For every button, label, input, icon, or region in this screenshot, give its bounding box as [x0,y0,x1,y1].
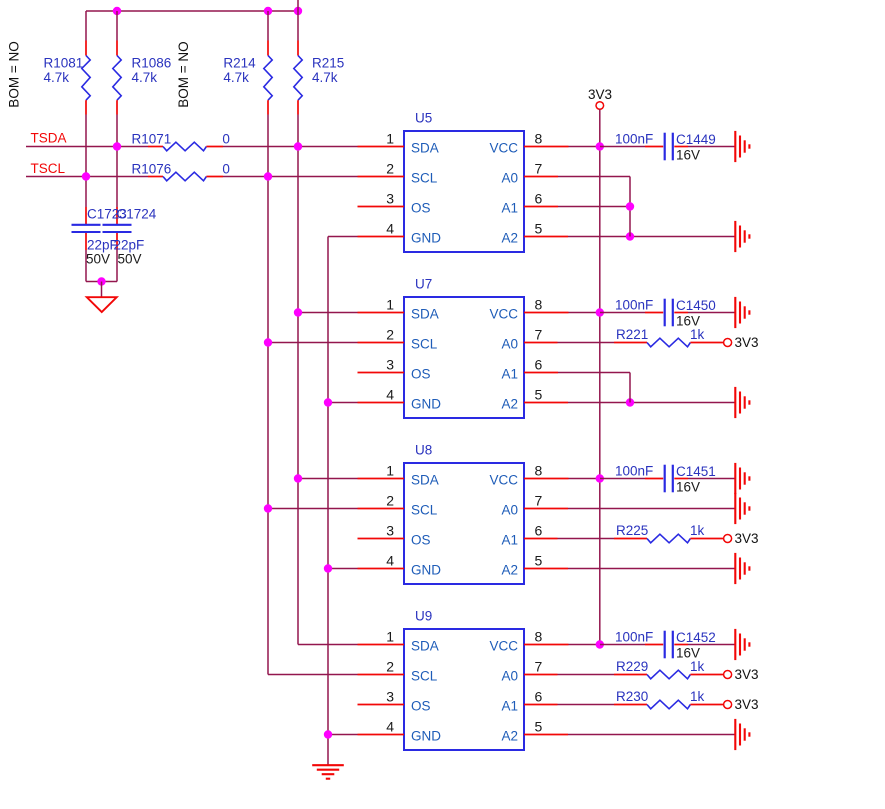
svg-text:1k: 1k [690,659,705,674]
svg-text:GND: GND [411,563,441,578]
svg-text:4.7k: 4.7k [223,70,249,85]
svg-text:1: 1 [386,462,394,478]
svg-text:SDA: SDA [411,639,439,654]
svg-text:6: 6 [535,357,543,373]
svg-text:5: 5 [535,553,543,569]
svg-text:A1: A1 [501,533,518,548]
svg-text:A0: A0 [501,337,518,352]
svg-text:16V: 16V [676,148,700,163]
svg-text:1k: 1k [690,689,705,704]
svg-text:3V3: 3V3 [735,667,759,682]
svg-text:C1450: C1450 [676,298,716,313]
svg-text:6: 6 [535,523,543,539]
svg-text:22pF: 22pF [114,237,145,252]
svg-text:2: 2 [386,160,394,176]
svg-text:3: 3 [386,356,394,372]
svg-text:3V3: 3V3 [735,531,759,546]
svg-text:OS: OS [411,699,431,714]
svg-text:100nF: 100nF [615,132,653,147]
svg-text:BOM = NO: BOM = NO [176,41,191,107]
svg-text:1: 1 [386,628,394,644]
svg-text:4.7k: 4.7k [44,70,70,85]
svg-text:5: 5 [535,719,543,735]
svg-text:OS: OS [411,201,431,216]
svg-text:R1076: R1076 [132,161,172,176]
svg-text:A0: A0 [501,503,518,518]
svg-text:VCC: VCC [489,141,518,156]
svg-text:A0: A0 [501,669,518,684]
svg-text:GND: GND [411,729,441,744]
svg-text:R1081: R1081 [44,56,84,71]
svg-text:SDA: SDA [411,473,439,488]
svg-text:U7: U7 [415,276,432,291]
svg-text:4.7k: 4.7k [312,70,338,85]
svg-text:7: 7 [535,161,543,177]
svg-text:U9: U9 [415,608,432,623]
svg-text:A1: A1 [501,201,518,216]
svg-text:R221: R221 [616,327,648,342]
svg-text:100nF: 100nF [615,464,653,479]
svg-text:A1: A1 [501,699,518,714]
svg-text:8: 8 [535,463,543,479]
svg-text:R229: R229 [616,659,648,674]
svg-text:C1449: C1449 [676,132,716,147]
svg-text:R1086: R1086 [132,56,172,71]
svg-text:3: 3 [386,522,394,538]
svg-text:7: 7 [535,493,543,509]
svg-text:1k: 1k [690,523,705,538]
svg-text:4.7k: 4.7k [132,70,158,85]
svg-text:R1071: R1071 [132,131,172,146]
svg-text:C1451: C1451 [676,464,716,479]
svg-text:2: 2 [386,658,394,674]
svg-text:7: 7 [535,659,543,675]
svg-text:U8: U8 [415,442,432,457]
svg-text:OS: OS [411,367,431,382]
svg-text:1k: 1k [690,327,705,342]
svg-text:GND: GND [411,397,441,412]
svg-text:16V: 16V [676,480,700,495]
svg-text:3: 3 [386,190,394,206]
svg-text:A2: A2 [501,563,518,578]
svg-text:VCC: VCC [489,473,518,488]
svg-text:OS: OS [411,533,431,548]
svg-text:TSCL: TSCL [31,161,66,176]
svg-text:0: 0 [222,131,230,146]
svg-text:R225: R225 [616,523,648,538]
svg-text:SDA: SDA [411,141,439,156]
svg-text:SCL: SCL [411,337,438,352]
svg-text:VCC: VCC [489,307,518,322]
svg-text:6: 6 [535,689,543,705]
svg-text:R214: R214 [223,56,256,71]
svg-text:50V: 50V [86,251,110,266]
svg-text:SCL: SCL [411,669,438,684]
svg-text:100nF: 100nF [615,298,653,313]
svg-text:2: 2 [386,492,394,508]
svg-text:5: 5 [535,387,543,403]
svg-text:8: 8 [535,297,543,313]
svg-text:A2: A2 [501,729,518,744]
svg-text:C1452: C1452 [676,630,716,645]
svg-text:4: 4 [386,718,394,734]
svg-text:U5: U5 [415,110,432,125]
svg-text:BOM = NO: BOM = NO [7,41,22,107]
svg-text:6: 6 [535,191,543,207]
svg-text:4: 4 [386,386,394,402]
svg-text:2: 2 [386,326,394,342]
svg-text:3: 3 [386,688,394,704]
svg-text:R230: R230 [616,689,648,704]
svg-text:A2: A2 [501,397,518,412]
svg-text:3V3: 3V3 [735,697,759,712]
svg-text:7: 7 [535,327,543,343]
svg-text:R215: R215 [312,56,344,71]
svg-text:VCC: VCC [489,639,518,654]
svg-text:C1724: C1724 [117,207,157,222]
svg-text:8: 8 [535,629,543,645]
svg-text:A2: A2 [501,231,518,246]
svg-text:50V: 50V [118,251,142,266]
svg-text:4: 4 [386,552,394,568]
svg-text:1: 1 [386,130,394,146]
svg-text:1: 1 [386,296,394,312]
svg-text:8: 8 [535,131,543,147]
svg-text:SCL: SCL [411,503,438,518]
svg-text:5: 5 [535,221,543,237]
svg-text:0: 0 [222,161,230,176]
svg-text:3V3: 3V3 [735,335,759,350]
svg-text:A1: A1 [501,367,518,382]
svg-text:SDA: SDA [411,307,439,322]
svg-text:100nF: 100nF [615,630,653,645]
svg-text:TSDA: TSDA [31,131,67,146]
svg-text:A0: A0 [501,171,518,186]
svg-text:4: 4 [386,220,394,236]
svg-text:GND: GND [411,231,441,246]
svg-text:3V3: 3V3 [588,87,612,102]
svg-text:SCL: SCL [411,171,438,186]
